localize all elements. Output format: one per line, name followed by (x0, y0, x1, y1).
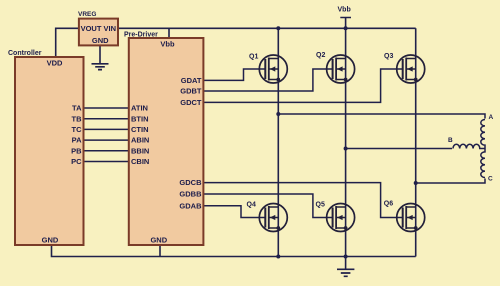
wire Pre-Driver Vbb drop (168, 28, 170, 39)
node B (448, 137, 453, 144)
svg-text:Q2: Q2 (316, 52, 325, 59)
transistor Q2 (316, 52, 355, 83)
wire phase A to winding (278, 114, 485, 119)
svg-text:Q3: Q3 (384, 53, 393, 60)
svg-text:Q1: Q1 (249, 54, 258, 61)
wire pre-driver GND drop (159, 245, 161, 257)
svg-text:TC: TC (72, 125, 83, 134)
pre-driver block U2 (124, 32, 203, 246)
svg-text:A: A (489, 114, 494, 121)
svg-text:Controller: Controller (8, 50, 42, 57)
inductor winding C (481, 149, 485, 178)
svg-text:GND: GND (92, 36, 109, 45)
junction phase C tap (414, 181, 418, 185)
wire phase leg A vertical (277, 28, 279, 256)
controller block U1 (8, 50, 84, 245)
svg-text:BTIN: BTIN (131, 114, 149, 123)
svg-text:GDCT: GDCT (180, 98, 202, 107)
wire GDCT to Q3 gate (203, 69, 402, 102)
svg-text:VOUT VIN: VOUT VIN (81, 24, 116, 33)
svg-text:GDAT: GDAT (181, 76, 202, 85)
wire GDCB to Q6 gate (203, 183, 402, 218)
junction phase A tap (276, 112, 280, 116)
wire GDAB to Q4 gate (203, 206, 265, 218)
wire phase C to winding (416, 179, 485, 184)
junction top rail / Vbb terminal (344, 26, 348, 30)
svg-text:GND: GND (42, 236, 59, 245)
svg-text:VREG: VREG (78, 11, 96, 18)
wire phase leg C vertical (415, 28, 417, 256)
svg-text:GDCB: GDCB (179, 178, 202, 187)
svg-text:CTIN: CTIN (131, 125, 149, 134)
inductor winding B (453, 144, 485, 148)
svg-text:TB: TB (72, 114, 83, 123)
svg-text:Q4: Q4 (247, 202, 256, 209)
svg-text:BBIN: BBIN (131, 146, 149, 155)
wire bottom ground rail (52, 245, 416, 257)
wire GDBT to Q2 gate (203, 69, 332, 91)
svg-text:ABIN: ABIN (131, 136, 149, 145)
svg-text:GDBB: GDBB (179, 190, 202, 199)
transistor Q5 (316, 202, 355, 232)
svg-text:VDD: VDD (47, 59, 63, 68)
junction top rail / Q1 drain (276, 26, 280, 30)
node A (489, 114, 494, 121)
transistor Q4 (247, 202, 288, 232)
svg-text:CBIN: CBIN (131, 157, 149, 166)
svg-text:ATIN: ATIN (131, 104, 148, 113)
junction bottom rail / ground (344, 255, 348, 259)
wire Vbb rail (118, 27, 416, 29)
junction phase B tap (344, 147, 348, 151)
svg-text:PB: PB (71, 146, 82, 155)
svg-text:B: B (448, 137, 453, 144)
svg-text:GND: GND (150, 236, 167, 245)
svg-text:Q5: Q5 (316, 202, 325, 209)
wire GDAT to Q1 gate (203, 69, 265, 80)
junction bottom rail / Q4 source (276, 255, 280, 259)
svg-text:C: C (488, 176, 493, 183)
inductor winding A (481, 120, 485, 149)
svg-text:GDAB: GDAB (179, 201, 202, 210)
ground (VREG) (92, 45, 109, 69)
voltage regulator VREG (78, 11, 118, 45)
wire VOUT to Controller VDD (56, 28, 79, 57)
ground (bottom rail) (337, 257, 354, 277)
wire phase leg B vertical (345, 28, 347, 256)
svg-text:Vbb: Vbb (338, 7, 351, 14)
node C (488, 176, 493, 183)
svg-text:PC: PC (71, 157, 82, 166)
wire phase B to winding (346, 148, 452, 150)
wire GDBB to Q5 gate (203, 194, 332, 218)
svg-text:TA: TA (72, 104, 82, 113)
svg-text:Vbb: Vbb (160, 40, 175, 49)
svg-text:GDBT: GDBT (180, 87, 202, 96)
svg-text:PA: PA (72, 136, 82, 145)
Vbb supply terminal (338, 7, 352, 29)
wire controller-predriver pin lines (84, 108, 129, 162)
svg-text:Q6: Q6 (384, 201, 393, 208)
svg-text:Pre-Driver: Pre-Driver (124, 32, 158, 39)
transistor Q3 (384, 53, 425, 83)
transistor Q6 (384, 201, 425, 232)
transistor Q1 (249, 54, 287, 84)
